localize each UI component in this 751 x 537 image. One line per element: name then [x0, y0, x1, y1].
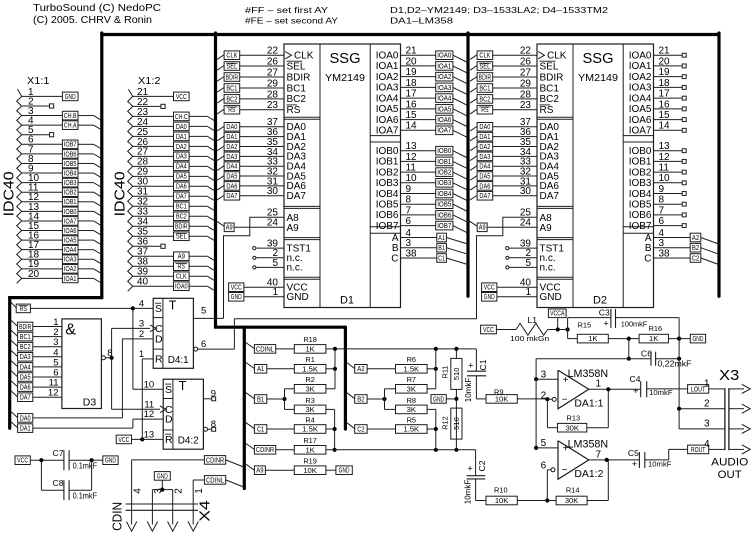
connector X4: [126, 503, 198, 505]
op-amp DA1:1 LM358N triangle: [558, 370, 589, 409]
svg-text:DA2: DA2: [176, 144, 187, 151]
svg-text:B1: B1: [257, 396, 264, 403]
svg-text:30K: 30K: [565, 423, 579, 432]
svg-text:DA0: DA0: [20, 415, 31, 422]
IC D1 YM2149 outline: [284, 44, 401, 308]
svg-text:IOB5: IOB5: [629, 200, 652, 211]
IC D4:1 1533TM2 T-flip-flop outline: [153, 298, 193, 368]
svg-text:1.5K: 1.5K: [403, 425, 419, 434]
svg-text:IOA4: IOA4: [437, 96, 451, 103]
svg-text:IOA4: IOA4: [376, 93, 399, 104]
svg-text:SSG: SSG: [330, 51, 361, 67]
D1 pin 33 DA4 with net label: [217, 166, 224, 171]
DA1:2 output wire: [589, 459, 640, 461]
svg-text:RS: RS: [178, 264, 186, 271]
svg-text:IOB0: IOB0: [629, 146, 652, 157]
svg-text:2: 2: [174, 488, 185, 494]
D4:2 output pin 8 n.c.: [204, 427, 208, 431]
svg-text:1K: 1K: [588, 334, 597, 343]
svg-text:3K: 3K: [305, 384, 314, 393]
svg-text:SEL: SEL: [226, 63, 237, 70]
bus left lower vertical: [10, 298, 102, 429]
wire bias divider to C6 row: [628, 339, 630, 359]
svg-text:DA5: DA5: [20, 374, 31, 381]
svg-text:RS: RS: [20, 306, 28, 313]
svg-text:DA6: DA6: [479, 183, 490, 190]
svg-text:6: 6: [541, 461, 547, 472]
D3 pin 5 DA4 with net label: [11, 361, 18, 367]
DA1:1 - input wire with bubble: [517, 398, 547, 400]
X4 pin 1: [192, 480, 194, 525]
D2 pin 22 CLK with net label: [470, 55, 477, 60]
D2 pin 5 n.c.: [507, 266, 537, 268]
svg-text:A2: A2: [692, 235, 699, 242]
svg-text:2: 2: [704, 399, 710, 410]
D2 pin 26 SEL with net label: [470, 66, 477, 71]
svg-text:RS: RS: [287, 105, 301, 116]
svg-text:+: +: [632, 459, 638, 470]
D1 pin 28 BC2 with net label: [217, 98, 224, 103]
svg-text:1.5K: 1.5K: [302, 425, 318, 434]
net label CDINR at X4: [204, 456, 225, 465]
D3 output pin 8 bubble: [101, 356, 105, 360]
svg-text:IOB5: IOB5: [376, 200, 399, 211]
svg-text:VCC: VCC: [484, 285, 495, 292]
capacitor C1 10mkF: [475, 349, 477, 371]
bus mixer right vertical: [344, 327, 347, 429]
net label VCC to D4 R pins: [116, 435, 131, 444]
svg-text:C: C: [644, 253, 651, 264]
net label GND for C7/C8: [92, 459, 103, 461]
svg-text:D2: D2: [593, 295, 607, 307]
svg-text:IOB2: IOB2: [64, 190, 77, 197]
svg-text:29: 29: [267, 78, 279, 89]
svg-text:4: 4: [704, 439, 710, 450]
net label GND after R19: [326, 469, 336, 471]
svg-text:X3: X3: [719, 368, 739, 384]
svg-text:BDIR: BDIR: [479, 74, 492, 81]
net label C2 mixer: [347, 423, 355, 429]
net label GND at X4: [154, 472, 170, 481]
svg-text:DA1:2: DA1:2: [574, 468, 603, 480]
svg-text:3: 3: [139, 318, 144, 329]
svg-text:X1:1: X1:1: [27, 76, 50, 87]
svg-text:DA0: DA0: [226, 124, 237, 131]
svg-text:5: 5: [272, 258, 278, 269]
svg-text:IOA1: IOA1: [629, 61, 652, 72]
svg-text:LM358N: LM358N: [568, 368, 609, 380]
svg-text:10mkF: 10mkF: [464, 378, 473, 403]
svg-text:1.5K: 1.5K: [302, 364, 318, 373]
D2 pin 34 DA3 with net label: [470, 156, 477, 161]
svg-text:CDINL: CDINL: [256, 346, 274, 353]
svg-text:1K: 1K: [649, 334, 658, 343]
svg-text:CDIN: CDIN: [110, 502, 125, 531]
svg-text:TurboSound (C) NedoPC: TurboSound (C) NedoPC: [33, 2, 161, 14]
svg-text:R4: R4: [305, 416, 314, 425]
IC D3 1533LA2 NAND outline: [62, 319, 102, 409]
svg-text:DA0: DA0: [176, 124, 187, 131]
net label A9 at D1: [217, 221, 225, 226]
bus vertical D2 right: [717, 33, 720, 296]
svg-text:4: 4: [132, 488, 143, 494]
svg-text:R12: R12: [441, 416, 450, 430]
svg-text:IOA1: IOA1: [64, 276, 77, 283]
svg-text:IOA7: IOA7: [376, 126, 399, 137]
svg-text:DA3: DA3: [176, 154, 187, 161]
svg-text:IOB6: IOB6: [437, 212, 451, 219]
svg-text:C4: C4: [630, 374, 641, 384]
svg-text:DA5: DA5: [479, 173, 490, 180]
svg-text:IOB5: IOB5: [64, 161, 77, 168]
svg-text:100 mkGn: 100 mkGn: [510, 334, 549, 343]
D2 pin 40 VCC: [482, 283, 497, 292]
D2 pin 28 BC2 with net label: [470, 98, 477, 103]
svg-text:BDIR: BDIR: [287, 72, 311, 83]
svg-text:R7: R7: [407, 375, 416, 384]
net label GND after R16: [690, 334, 705, 343]
D2 pin 23 RS with net label: [470, 109, 477, 114]
svg-text:R: R: [155, 354, 163, 366]
D2 pin 30 DA7 with net label: [470, 195, 477, 200]
svg-text:D: D: [155, 334, 163, 346]
svg-text:R16: R16: [649, 324, 663, 333]
svg-text:GND: GND: [540, 292, 562, 303]
svg-text:IOA0: IOA0: [629, 51, 652, 62]
net label B2 mixer: [347, 393, 355, 399]
svg-text:10K: 10K: [303, 466, 317, 475]
wire to ROUT: [668, 449, 670, 460]
svg-text:3K: 3K: [407, 405, 416, 414]
svg-text:IOB0: IOB0: [437, 148, 451, 155]
svg-text:DA7: DA7: [226, 193, 237, 200]
svg-text:DA4: DA4: [176, 164, 187, 171]
D2 pin 36 DA1 with net label: [470, 136, 477, 141]
D1 pin 27 BDIR with net label: [217, 77, 224, 82]
D2 pin 37 DA0 with net label: [470, 126, 477, 131]
svg-text:VCC: VCC: [118, 437, 129, 444]
svg-text:CLK: CLK: [226, 53, 237, 60]
svg-text:IOA6: IOA6: [376, 115, 399, 126]
svg-text:IOA5: IOA5: [437, 106, 451, 113]
X4 pin 3: [151, 490, 153, 525]
svg-text:n.c.: n.c.: [287, 263, 303, 274]
svg-text:30: 30: [267, 186, 279, 197]
net label A9 at D2: [470, 221, 478, 226]
X4 pin 4: [131, 460, 133, 525]
svg-text:BC2: BC2: [20, 344, 31, 351]
svg-text:1: 1: [525, 287, 531, 298]
svg-text:DA5: DA5: [226, 173, 237, 180]
svg-text:(C) 2005. CHRV & Ronin: (C) 2005. CHRV & Ronin: [33, 14, 152, 26]
svg-text:28: 28: [267, 89, 279, 100]
svg-text:IOB1: IOB1: [437, 159, 451, 166]
D2 pin 1 GND: [482, 293, 497, 302]
svg-text:SEL: SEL: [540, 61, 559, 72]
svg-text:R13: R13: [567, 414, 581, 423]
svg-text:IOB3: IOB3: [629, 178, 652, 189]
svg-text:IOB2: IOB2: [437, 170, 451, 177]
X4 pin 2: [172, 490, 174, 525]
svg-text:DA1:1: DA1:1: [574, 398, 603, 410]
D3 pin 2 BC1 with net label: [11, 330, 18, 336]
D1 pin 26 SEL with net label: [217, 66, 224, 71]
svg-text:R6: R6: [407, 355, 416, 364]
svg-text:1: 1: [596, 379, 602, 390]
net label VCC for C7/C8: [15, 456, 30, 465]
svg-text:R5: R5: [407, 416, 416, 425]
svg-text:IOA7: IOA7: [64, 218, 77, 225]
svg-text:IOA1: IOA1: [376, 61, 399, 72]
D4:1 output pin 6 bubble wire to D2 A8: [194, 347, 198, 351]
svg-text:6: 6: [201, 339, 206, 350]
svg-text:GND: GND: [231, 294, 242, 301]
svg-text:B2: B2: [357, 396, 364, 403]
svg-text:100mkF: 100mkF: [621, 319, 648, 328]
D1 pin 23 RS with net label: [217, 109, 224, 114]
svg-text:IOB6: IOB6: [64, 151, 77, 158]
svg-text:3K: 3K: [407, 384, 416, 393]
svg-text:510: 510: [452, 368, 461, 381]
svg-text:−: −: [562, 395, 568, 406]
svg-text:0.1mkF: 0.1mkF: [73, 461, 98, 470]
svg-text:CDINR: CDINR: [206, 457, 224, 464]
D3 pin 4 DA3 with net label: [11, 351, 18, 357]
svg-text:IOA6: IOA6: [437, 117, 451, 124]
svg-text:IOA3: IOA3: [437, 85, 451, 92]
svg-text:23: 23: [267, 100, 279, 111]
svg-text:A2: A2: [357, 366, 364, 373]
wire A8 chip-select at D1: [224, 217, 285, 318]
svg-text:A9: A9: [287, 223, 300, 234]
svg-text:R1: R1: [305, 355, 314, 364]
svg-text:IOB2: IOB2: [629, 167, 652, 178]
svg-text:VCC: VCC: [176, 94, 187, 101]
D2 pin 32 DA5 with net label: [470, 176, 477, 181]
svg-text:23: 23: [520, 100, 532, 111]
svg-text:DA4: DA4: [20, 364, 31, 371]
svg-text:IOB3: IOB3: [437, 180, 451, 187]
svg-text:DA1: DA1: [226, 134, 237, 141]
svg-text:+: +: [633, 386, 639, 397]
svg-text:VCC: VCC: [17, 458, 28, 465]
svg-text:GND: GND: [484, 294, 495, 301]
svg-text:22: 22: [267, 46, 279, 57]
net label RS to D4:1 S: [11, 302, 16, 307]
net label CDINL mixer: [246, 343, 255, 349]
svg-text:CH.A: CH.A: [64, 123, 77, 130]
D1 pin 32 DA5 with net label: [217, 176, 224, 181]
svg-text:R10: R10: [494, 485, 508, 494]
svg-text:IOA4: IOA4: [629, 93, 652, 104]
svg-text:A9: A9: [540, 223, 553, 234]
svg-text:A9: A9: [256, 468, 263, 475]
net label DA0 to D4:1 D: [11, 412, 18, 418]
svg-text:DA7: DA7: [287, 191, 307, 202]
svg-text:DA7: DA7: [479, 193, 490, 200]
svg-text:D3: D3: [83, 397, 97, 409]
svg-text:IOA7: IOA7: [629, 126, 652, 137]
svg-text:C8: C8: [53, 478, 64, 488]
svg-text:B1: B1: [438, 245, 445, 252]
svg-text:C7: C7: [53, 448, 64, 458]
IC D2 YM2149 outline: [537, 44, 654, 308]
wire R net to D4:1 R: [141, 359, 143, 440]
net label CDINR mixer: [246, 444, 255, 450]
svg-text:CH.B: CH.B: [64, 113, 77, 120]
wire CDINR row to C2 cap: [326, 449, 476, 451]
bus vertical X1:2/D1 with corner to mixer: [216, 33, 346, 327]
svg-text:IOA6: IOA6: [629, 115, 652, 126]
svg-text:BC1: BC1: [20, 334, 31, 341]
resistor R13 30K feedback: [546, 399, 548, 428]
svg-text:BC1: BC1: [479, 85, 490, 92]
svg-text:IOB4: IOB4: [437, 191, 451, 198]
svg-text:−: −: [562, 465, 568, 476]
svg-text:D4:1: D4:1: [168, 354, 189, 366]
svg-text:IOB4: IOB4: [376, 189, 399, 200]
svg-text:CLK: CLK: [547, 51, 567, 62]
svg-text:RS: RS: [481, 107, 489, 114]
svg-text:IDC40: IDC40: [1, 171, 18, 216]
svg-text:IOB0: IOB0: [64, 209, 77, 216]
net label VCCA: [556, 327, 560, 331]
D1 pin 35 DA2 with net label: [217, 146, 224, 151]
svg-text:GND: GND: [692, 336, 703, 343]
net label DA1 to D4:2 D: [11, 422, 18, 428]
X3 pin2 GND wire: [679, 408, 725, 410]
wire R1 to node: [326, 368, 335, 370]
D2 pin 33 DA4 with net label: [470, 166, 477, 171]
svg-text:GND: GND: [157, 473, 168, 480]
svg-text:BC2: BC2: [226, 96, 237, 103]
svg-text:7: 7: [596, 449, 602, 460]
svg-text:IOB4: IOB4: [629, 189, 652, 200]
svg-text:10K: 10K: [495, 395, 509, 404]
bus vertical D2 left: [466, 33, 469, 296]
bus vertical X1:1: [100, 33, 103, 298]
capacitor C3 100mkF: [566, 327, 570, 331]
svg-text:DA6: DA6: [226, 183, 237, 190]
DA1:1 + input wire: [536, 378, 558, 380]
wire CDINL row to C1 cap: [326, 348, 477, 350]
svg-text:D: D: [165, 414, 173, 426]
svg-text:R17: R17: [303, 436, 317, 445]
capacitor C2 10mkF: [475, 450, 477, 476]
svg-text:AUDIO: AUDIO: [711, 456, 748, 468]
svg-text:OUT: OUT: [718, 469, 742, 481]
net label A1 mixer: [246, 363, 255, 369]
svg-text:BC2: BC2: [479, 96, 490, 103]
svg-text:28: 28: [520, 89, 532, 100]
wire X4 pin4 to CDINR: [132, 459, 205, 461]
svg-text:DA6: DA6: [176, 184, 187, 191]
svg-text:A9: A9: [178, 254, 185, 261]
svg-text:1: 1: [194, 488, 205, 494]
D1 pin 34 DA3 with net label: [217, 156, 224, 161]
D1 pin 31 DA6 with net label: [217, 185, 224, 190]
D1 pin 22 CLK with net label: [217, 55, 224, 60]
svg-text:10: 10: [144, 379, 155, 390]
svg-text:R18: R18: [303, 335, 317, 344]
svg-text:DA7: DA7: [176, 194, 187, 201]
svg-text:R2: R2: [305, 375, 314, 384]
svg-text:T: T: [169, 298, 177, 312]
capacitor C8: [40, 460, 42, 490]
svg-text:DA1–LM358: DA1–LM358: [390, 16, 453, 26]
svg-text:#FF – set first AY: #FF – set first AY: [245, 5, 328, 15]
svg-text:BC2: BC2: [287, 94, 307, 105]
X3 pin3 GND wire: [679, 428, 725, 430]
svg-text:BDIR: BDIR: [540, 72, 564, 83]
svg-text:IOA3: IOA3: [629, 83, 652, 94]
svg-text:DA1: DA1: [176, 134, 187, 141]
svg-text:R11: R11: [441, 365, 450, 378]
wire X4 pin1 to CDINL: [193, 479, 204, 481]
D1 pin 5 n.c.: [254, 266, 284, 268]
svg-text:CH.C: CH.C: [175, 114, 188, 121]
svg-text:BC1: BC1: [287, 83, 307, 94]
svg-text:S: S: [155, 303, 162, 315]
svg-text:DA3: DA3: [20, 354, 31, 361]
D1 pin 36 DA1 with net label: [217, 136, 224, 141]
svg-text:S: S: [165, 384, 172, 396]
svg-text:26: 26: [267, 56, 279, 67]
svg-text:IOB6: IOB6: [629, 210, 652, 221]
svg-text:C: C: [391, 253, 398, 264]
svg-text:BDIR: BDIR: [19, 324, 31, 331]
svg-text:30K: 30K: [565, 496, 579, 505]
GND rail down right side: [678, 339, 680, 429]
svg-text:A9: A9: [479, 225, 486, 232]
svg-text:DA1: DA1: [479, 134, 490, 141]
svg-text:GND: GND: [287, 292, 309, 303]
svg-text:&: &: [65, 322, 76, 339]
bus top horizontal: [102, 33, 719, 36]
svg-text:SSG: SSG: [583, 51, 614, 67]
svg-text:5: 5: [201, 306, 206, 317]
svg-text:12: 12: [48, 388, 59, 399]
svg-text:+: +: [467, 464, 473, 475]
bus mixer left vertical: [243, 327, 246, 488]
svg-text:GND: GND: [339, 468, 350, 475]
svg-text:DA3: DA3: [479, 154, 490, 161]
svg-text:IOB1: IOB1: [376, 157, 399, 168]
svg-text:IOB3: IOB3: [376, 178, 399, 189]
svg-text:IOA2: IOA2: [437, 74, 451, 81]
svg-text:3K: 3K: [305, 405, 314, 414]
svg-text:BC1: BC1: [540, 83, 560, 94]
svg-text:IOB7: IOB7: [376, 221, 399, 232]
svg-text:1K: 1K: [305, 445, 314, 454]
net label A9 mixer: [246, 464, 255, 470]
svg-text:DA3: DA3: [226, 154, 237, 161]
net label VCC power filter: [481, 325, 497, 334]
D1 pin 29 BC1 with net label: [217, 88, 224, 93]
svg-text:IOA5: IOA5: [64, 238, 77, 245]
wire bias to op-amp + inputs: [536, 358, 629, 360]
svg-text:4: 4: [139, 298, 144, 309]
svg-text:510: 510: [452, 417, 461, 430]
D1 pin 1 GND: [229, 293, 244, 302]
svg-text:IOA0: IOA0: [175, 284, 188, 291]
svg-text:R19: R19: [303, 457, 317, 466]
net label GND between R11 R12: [431, 395, 446, 404]
svg-text:IOB6: IOB6: [376, 210, 399, 221]
svg-text:C2: C2: [357, 426, 364, 433]
D1 pin 40 VCC: [229, 283, 244, 292]
D2 pin 27 BDIR with net label: [470, 77, 477, 82]
